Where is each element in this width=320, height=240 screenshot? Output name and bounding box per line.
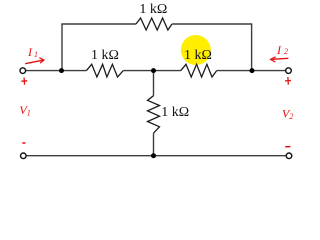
resistor R4 (vertical, 1 kΩ) <box>148 96 160 134</box>
svg-text:1 kΩ: 1 kΩ <box>139 2 167 17</box>
wire: top rail right segment <box>172 23 252 25</box>
svg-text:1 kΩ: 1 kΩ <box>161 105 189 120</box>
svg-text:1 kΩ: 1 kΩ <box>184 48 212 63</box>
node A junction dot <box>59 68 64 73</box>
svg-text:1: 1 <box>34 50 38 59</box>
plus sign V2 <box>285 77 291 85</box>
node B junction dot <box>151 68 156 73</box>
svg-text:1 kΩ: 1 kΩ <box>91 48 119 63</box>
port terminal: bottom-left (- of V1) <box>21 153 27 159</box>
wire: left port to node A <box>23 70 87 72</box>
node D junction dot (bottom rail) <box>151 153 156 158</box>
svg-text:2: 2 <box>284 47 288 56</box>
node C junction dot <box>250 68 255 73</box>
wire: R3 to node C <box>217 70 252 72</box>
value label R3: 1 kΩ <box>184 48 212 63</box>
resistor R2 (left middle, 1 kΩ) <box>86 64 123 77</box>
value label R4: 1 kΩ <box>161 105 189 120</box>
highlight on R3 value <box>181 35 211 65</box>
current arrow I2 (into port, leftward) <box>271 57 289 62</box>
wire: top loop left vertical (node A up to top rail) <box>61 24 63 71</box>
wire: node A-zigzag leads / node B segment <box>123 70 181 72</box>
voltage label V1 <box>19 103 30 118</box>
wire: R4 down to bottom rail node D <box>153 133 155 156</box>
wire: node C to right port <box>252 70 289 72</box>
current arrow I1 (into port, rightward) <box>25 58 44 64</box>
plus sign V1 <box>21 78 27 85</box>
current label I1 <box>27 45 38 59</box>
port terminal: bottom-right (- of V2) <box>286 153 292 159</box>
current label I2 <box>276 43 288 57</box>
value label R1: 1 kΩ <box>139 2 167 17</box>
wire: top loop right vertical (top rail down to node C) <box>251 24 253 71</box>
resistor R1 (top, 1 kΩ) <box>136 18 172 30</box>
wire: node B down to R4 <box>153 71 155 96</box>
voltage label V2 <box>282 106 293 121</box>
wire: bottom rail <box>23 155 289 157</box>
minus sign V2 <box>285 146 290 148</box>
wire: top rail left segment <box>61 23 136 25</box>
port terminal: top-left (+ of V1) <box>20 68 26 74</box>
value label R2: 1 kΩ <box>91 48 119 63</box>
resistor R3 (right middle, highlighted 1 kΩ) <box>181 64 217 77</box>
minus sign V1 <box>22 142 25 144</box>
port terminal: top-right (+ of V2) <box>286 68 292 74</box>
